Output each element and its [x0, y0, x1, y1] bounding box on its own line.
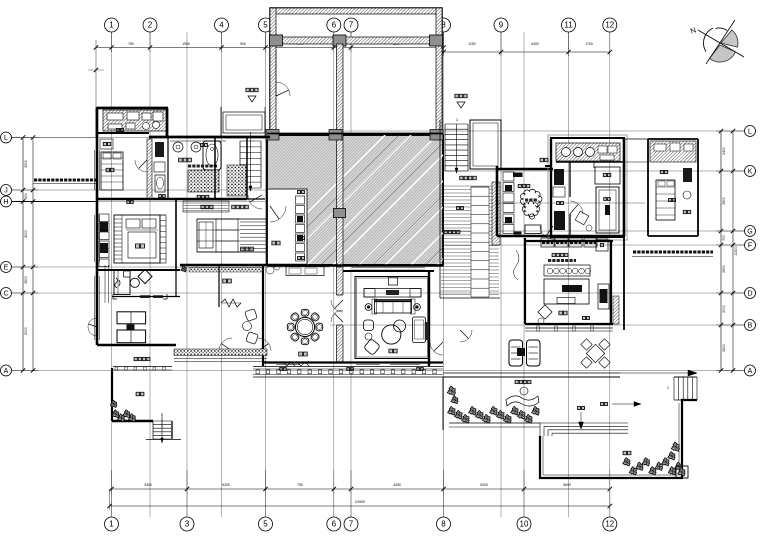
svg-text:A: A: [4, 368, 9, 375]
svg-text:8: 8: [441, 520, 446, 529]
svg-text:9: 9: [499, 21, 504, 30]
svg-text:12: 12: [605, 21, 614, 30]
svg-text:3900: 3900: [722, 197, 726, 205]
svg-text:6: 6: [332, 21, 337, 30]
svg-text:2400: 2400: [722, 147, 726, 155]
svg-text:1: 1: [109, 21, 114, 30]
svg-text:11500: 11500: [734, 246, 738, 255]
svg-text:D: D: [747, 290, 752, 297]
svg-text:G: G: [747, 228, 752, 235]
svg-text:6: 6: [332, 520, 337, 529]
svg-text:600: 600: [24, 193, 28, 199]
svg-text:5600: 5600: [563, 483, 571, 487]
svg-text:E: E: [4, 264, 9, 271]
svg-text:5200: 5200: [480, 483, 488, 487]
svg-text:1900: 1900: [182, 42, 190, 46]
svg-text:J: J: [4, 187, 8, 194]
svg-text:700: 700: [722, 235, 726, 241]
svg-text:2600: 2600: [24, 276, 28, 284]
svg-text:C: C: [3, 290, 8, 297]
svg-text:A: A: [748, 368, 753, 375]
svg-text:7: 7: [349, 520, 354, 529]
svg-text:5: 5: [263, 520, 268, 529]
svg-text:1700: 1700: [585, 42, 593, 46]
svg-text:2900: 2900: [722, 265, 726, 273]
svg-text:10: 10: [520, 520, 529, 529]
svg-text:4450: 4450: [393, 483, 401, 487]
svg-text:12: 12: [605, 520, 614, 529]
svg-text:750: 750: [297, 483, 303, 487]
svg-text:2600: 2600: [722, 344, 726, 352]
svg-text:7: 7: [349, 21, 354, 30]
svg-text:900: 900: [240, 42, 246, 46]
svg-text:F: F: [748, 242, 752, 249]
svg-text:1: 1: [109, 520, 114, 529]
svg-text:L: L: [748, 128, 752, 135]
svg-text:4000: 4000: [24, 230, 28, 238]
svg-text:H: H: [3, 199, 8, 206]
svg-text:B: B: [748, 322, 753, 329]
svg-text:2000: 2000: [722, 305, 726, 313]
svg-text:3400: 3400: [144, 483, 152, 487]
svg-text:3300: 3300: [24, 160, 28, 168]
svg-text:2: 2: [148, 21, 153, 30]
svg-text:750: 750: [128, 42, 134, 46]
svg-text:3: 3: [185, 520, 190, 529]
svg-text:4: 4: [219, 21, 224, 30]
svg-text:L: L: [4, 135, 8, 142]
svg-text:5: 5: [263, 21, 268, 30]
svg-text:K: K: [748, 168, 753, 175]
svg-text:5200: 5200: [222, 483, 230, 487]
svg-text:4400: 4400: [531, 42, 539, 46]
svg-text:11: 11: [564, 21, 573, 30]
svg-text:24900: 24900: [355, 500, 365, 504]
svg-text:5000: 5000: [24, 327, 28, 335]
svg-text:1150: 1150: [468, 42, 475, 46]
